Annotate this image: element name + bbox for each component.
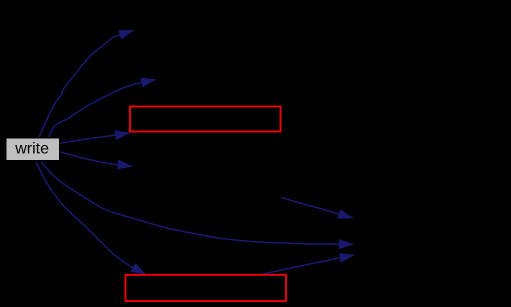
edge write->func1 (top) xyxy=(39,30,134,137)
node func5: red truncated box 2 xyxy=(126,275,287,301)
node write (current function) xyxy=(6,138,60,161)
edge write->func6 (long curve) xyxy=(41,162,353,244)
edge write->func5 (red box 2) xyxy=(36,162,146,274)
edge write->func4 xyxy=(59,152,132,167)
svg-text:write: write xyxy=(14,141,49,158)
edge write->func2 xyxy=(49,80,156,138)
edge func4->func6 xyxy=(281,198,353,219)
edge func5->func6 xyxy=(263,255,355,274)
node func3: red truncated box 1 xyxy=(130,107,281,132)
edge write->func3 (red box 1) xyxy=(59,133,130,144)
